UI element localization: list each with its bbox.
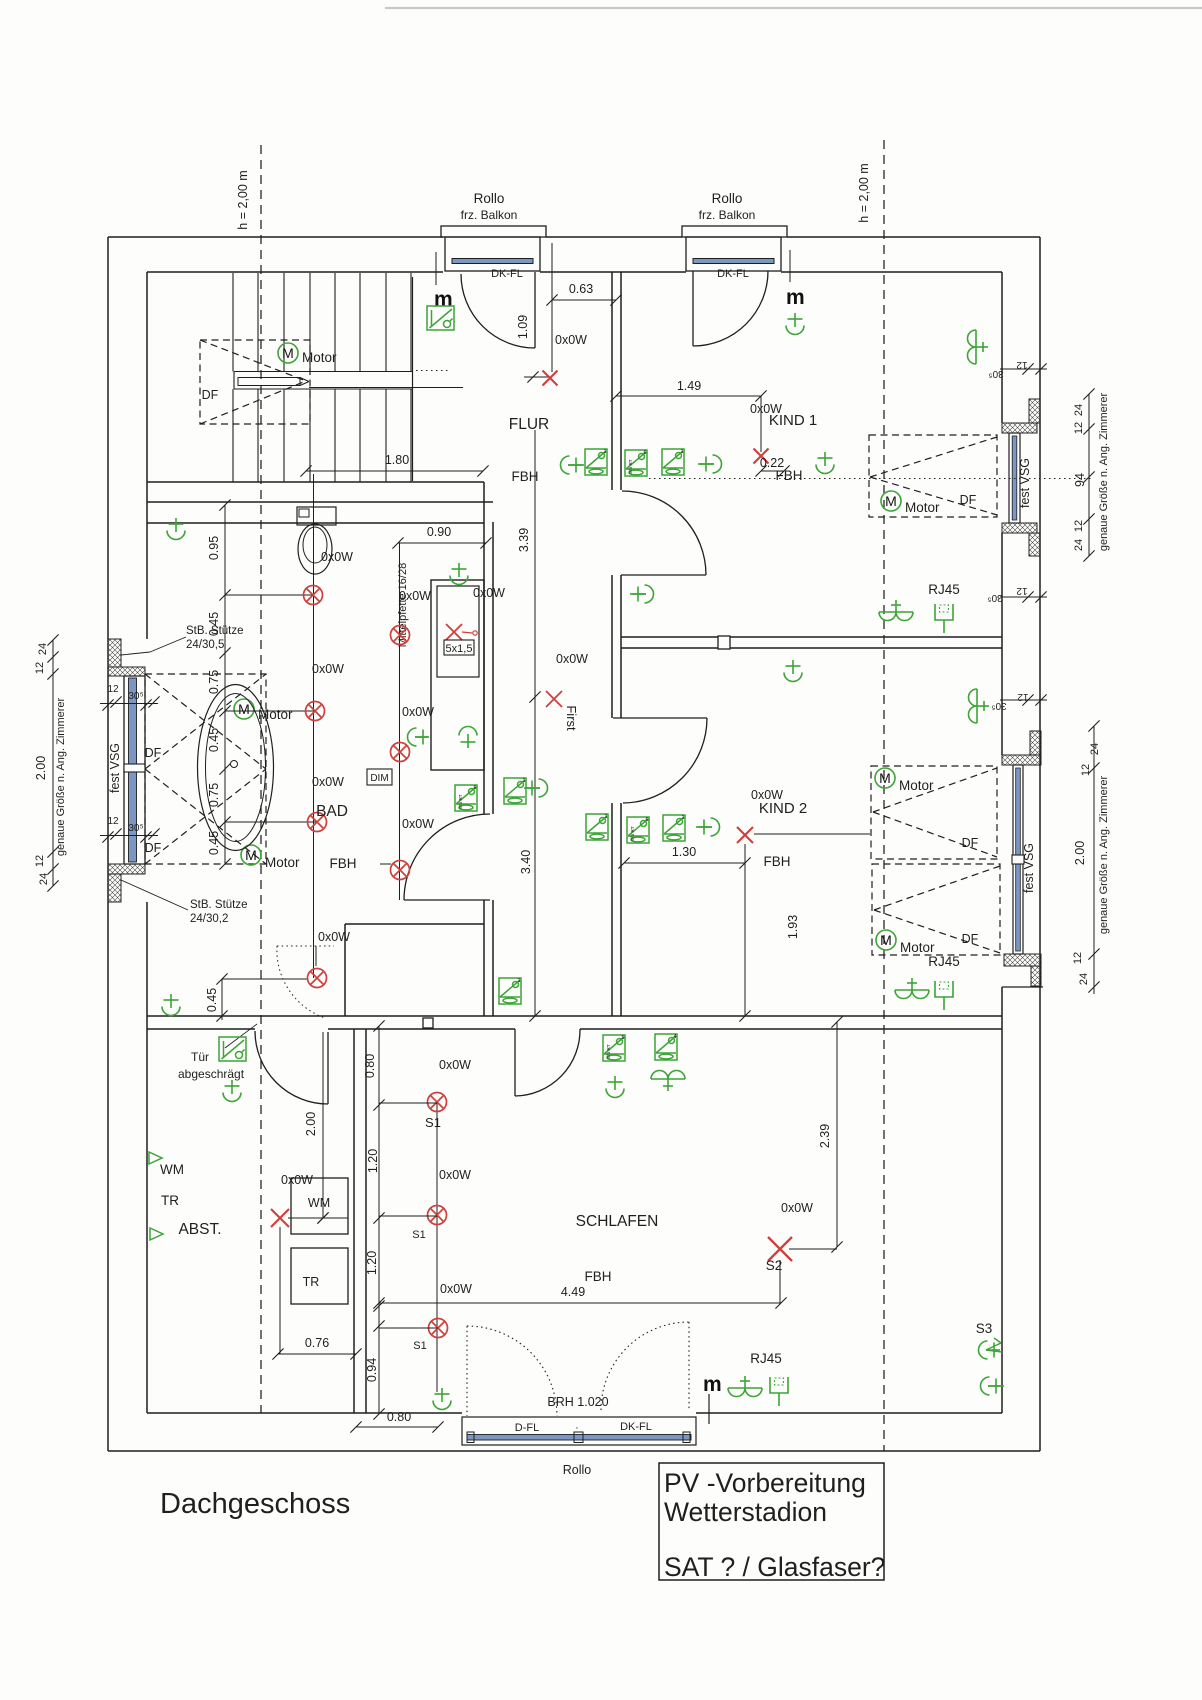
window right lower (2.00) frame — [1012, 765, 1014, 954]
control box SCHLAFEN 2 — [655, 1034, 677, 1060]
control box FLUR row 1 — [585, 449, 607, 475]
ceiling lamp lobby upper — [162, 994, 180, 1016]
svg-text:1.49: 1.49 — [677, 379, 701, 393]
ceiling lamp BAD 3 — [308, 813, 327, 832]
WC cistern — [297, 507, 336, 525]
svg-text:FBH: FBH — [512, 469, 539, 484]
extension line window2 right — [789, 250, 791, 282]
svg-text:0x0W: 0x0W — [402, 705, 434, 719]
svg-text:DF: DF — [962, 932, 979, 946]
window left mid divider — [124, 764, 145, 772]
svg-text:Info RT: Info RT — [458, 794, 463, 809]
room thermostat box BAD — [455, 785, 477, 811]
svg-text:12: 12 — [1016, 359, 1028, 370]
svg-text:1: 1 — [681, 815, 684, 821]
dashed line h=2.00m right — [883, 140, 885, 1451]
svg-text:DF: DF — [962, 836, 979, 850]
left window corner dim ticks upper — [100, 703, 158, 705]
ceiling lamp BAD WC — [167, 518, 185, 540]
svg-text:Dachgeschoss: Dachgeschoss — [160, 1488, 350, 1520]
wall south main lower line — [147, 1028, 255, 1030]
svg-text:2.00: 2.00 — [34, 756, 48, 780]
left window corner dim ticks lower — [100, 835, 158, 837]
svg-text:RJ45: RJ45 — [750, 1351, 782, 1366]
svg-text:24: 24 — [1078, 973, 1090, 985]
svg-text:ABST.: ABST. — [178, 1221, 221, 1238]
shower lamp bottom — [459, 727, 477, 749]
svg-text:m: m — [786, 286, 805, 309]
motor M KIND2 lower — [876, 930, 896, 950]
svg-text:frz. Balkon: frz. Balkon — [461, 208, 518, 222]
stair handrail outer — [234, 371, 412, 373]
svg-text:StB. Stütze: StB. Stütze — [190, 899, 248, 911]
svg-text:frz. Balkon: frz. Balkon — [699, 208, 756, 222]
dim 0.22 — [761, 470, 784, 472]
svg-text:First: First — [564, 705, 579, 731]
door KIND1 corridor — [621, 574, 706, 576]
svg-text:12: 12 — [1016, 585, 1028, 596]
svg-text:DIM: DIM — [370, 773, 388, 784]
svg-text:30⁵: 30⁵ — [991, 700, 1006, 711]
washing machine WM box — [291, 1178, 348, 1234]
svg-text:M: M — [282, 345, 294, 361]
ceiling lamp SCHLAFEN top — [606, 1076, 624, 1098]
svg-text:12: 12 — [1080, 764, 1092, 776]
svg-text:0x0W: 0x0W — [402, 817, 434, 831]
svg-text:DF: DF — [960, 493, 977, 507]
svg-text:0x0W: 0x0W — [312, 775, 344, 789]
svg-text:M: M — [885, 493, 897, 509]
shower tray inner — [437, 586, 479, 677]
dim 0.63 — [552, 299, 616, 301]
DF box KIND1 right — [869, 435, 997, 517]
svg-text:genaue Größe n. Ang. Zimmerer: genaue Größe n. Ang. Zimmerer — [1098, 392, 1110, 551]
svg-text:0x0W: 0x0W — [321, 550, 353, 564]
svg-text:1.30: 1.30 — [672, 845, 696, 859]
motor M BAD upper — [234, 699, 254, 719]
svg-text:Rollo: Rollo — [563, 1463, 592, 1477]
door ABST — [327, 1032, 329, 1104]
wall KIND1-KIND2 — [621, 636, 1002, 638]
motor M stairwell — [278, 343, 298, 363]
dim chain left outer — [52, 640, 54, 886]
svg-text:Motor: Motor — [905, 500, 940, 515]
window right lower mid divider — [1012, 855, 1024, 864]
data socket RJ45 SCHLAFEN — [770, 1377, 788, 1406]
svg-text:0.80: 0.80 — [363, 1054, 377, 1078]
label DIM box — [367, 769, 392, 785]
light point SCHLAFEN S2 red X — [768, 1237, 792, 1261]
post on KIND1-KIND2 wall — [718, 636, 730, 649]
control box KIND2 row 2 info — [627, 817, 649, 843]
svg-text:24: 24 — [1089, 743, 1101, 755]
svg-text:24: 24 — [37, 643, 49, 655]
window left fest VSG frame — [123, 676, 125, 864]
socket corridor — [526, 779, 548, 797]
door FLUR balcony — [534, 272, 536, 348]
svg-text:3.39: 3.39 — [517, 528, 531, 552]
dim chain BAD vertical — [224, 505, 226, 864]
ceiling lamp S1-3 — [429, 1319, 448, 1338]
svg-text:h = 2,00 m: h = 2,00 m — [857, 163, 871, 222]
svg-text:WM: WM — [160, 1162, 184, 1177]
svg-text:DK-FL: DK-FL — [491, 268, 523, 280]
cable point 5x1.5 red — [446, 624, 462, 640]
svg-text:24: 24 — [1073, 404, 1085, 416]
shower lamp top — [450, 563, 468, 585]
svg-text:FBH: FBH — [776, 468, 803, 483]
light point KIND1 red X — [754, 449, 769, 464]
svg-text:6: 6 — [473, 785, 476, 791]
ceiling lamp KIND2 near post — [784, 660, 802, 682]
rafter dim right wall lower — [1000, 699, 1047, 701]
ceiling lamp SCHLAFEN bottom — [433, 1388, 451, 1410]
svg-text:M: M — [238, 701, 250, 717]
svg-text:DF: DF — [202, 388, 219, 402]
dim 0.45 lobby — [221, 979, 223, 1020]
svg-text:1.20: 1.20 — [366, 1149, 380, 1173]
supply triangle ABST — [150, 1228, 163, 1240]
svg-text:1.09: 1.09 — [516, 315, 530, 339]
wall double socket KIND2 right — [969, 689, 990, 723]
svg-text:1: 1 — [517, 978, 520, 984]
double socket SCHLAFEN top — [651, 1071, 685, 1092]
svg-text:0x0W: 0x0W — [439, 1058, 471, 1072]
svg-text:1.80: 1.80 — [385, 453, 409, 467]
svg-text:0x0W: 0x0W — [439, 1168, 471, 1182]
dashed line h=2.00m left — [260, 145, 262, 1413]
svg-text:12: 12 — [1072, 952, 1084, 964]
door SCHLAFEN — [514, 1029, 516, 1096]
svg-text:1.20: 1.20 — [365, 1251, 379, 1275]
double socket KIND1 right — [879, 600, 913, 621]
svg-text:Tür: Tür — [191, 1050, 209, 1064]
svg-text:RJ45: RJ45 — [928, 954, 960, 969]
svg-text:0.63: 0.63 — [569, 282, 593, 296]
svg-text:12: 12 — [34, 662, 46, 674]
svg-text:0x0W: 0x0W — [312, 662, 344, 676]
ceiling lamp KIND1 mid — [816, 452, 834, 474]
ceiling lamp ABST door — [223, 1080, 241, 1102]
socket KIND1 door — [632, 585, 654, 603]
purlin line Mittelpfette — [399, 543, 401, 900]
switch S3 lower — [981, 1377, 1003, 1395]
svg-text:h = 2,00 m: h = 2,00 m — [236, 170, 250, 229]
double socket SCHLAFEN bottom — [728, 1376, 762, 1397]
ceiling lamp S1-2 — [428, 1206, 447, 1225]
window right lower hatch blocks — [1030, 731, 1041, 755]
svg-text:0x0W: 0x0W — [281, 1173, 313, 1187]
svg-text:30⁵: 30⁵ — [988, 368, 1003, 379]
svg-text:SCHLAFEN: SCHLAFEN — [576, 1213, 659, 1230]
svg-text:StB. Stütze: StB. Stütze — [186, 625, 244, 637]
dotted ridge line First — [649, 478, 1092, 480]
svg-text:5x1,5: 5x1,5 — [446, 643, 473, 655]
ceiling lamp BAD 1 — [304, 586, 323, 605]
dim 0.76 — [278, 1353, 356, 1355]
svg-text:FBH: FBH — [585, 1269, 612, 1284]
control box FLUR row 2 info — [625, 450, 647, 476]
svg-text:1: 1 — [603, 449, 606, 455]
svg-text:12: 12 — [107, 816, 119, 827]
window right lower glazing — [1016, 768, 1021, 951]
DF box KIND2 upper — [871, 766, 997, 859]
svg-text:30⁵: 30⁵ — [128, 691, 143, 702]
svg-text:0x0W: 0x0W — [440, 1282, 472, 1296]
dim 2.39 — [836, 1022, 838, 1247]
WC bowl — [298, 524, 332, 574]
svg-text:S1: S1 — [412, 1229, 425, 1241]
bathtub oval — [198, 685, 274, 851]
wall outer right — [1039, 237, 1041, 1451]
door BAD — [404, 899, 490, 901]
stair handrail dotted continuation — [416, 370, 448, 372]
svg-text:12: 12 — [107, 684, 119, 695]
svg-text:TR: TR — [161, 1193, 179, 1208]
svg-text:12: 12 — [1017, 691, 1029, 702]
control box KIND2 row 3 — [663, 815, 685, 841]
stair handrail inner rail — [238, 378, 300, 386]
svg-text:TR: TR — [303, 1275, 320, 1289]
svg-text:Motor: Motor — [302, 350, 337, 365]
light point ABST red X — [271, 1209, 289, 1227]
svg-text:M: M — [880, 932, 892, 948]
ceiling lamp S1-1 — [428, 1093, 447, 1112]
dim 0.80 bottom — [356, 1426, 438, 1428]
ceiling lamp BAD purlin 2 — [391, 743, 410, 762]
svg-text:2.39: 2.39 — [818, 1124, 832, 1148]
dim 3.39 3.40 corridor — [534, 430, 536, 1016]
wire BAD lights column — [313, 474, 315, 978]
svg-text:24: 24 — [1073, 539, 1085, 551]
svg-text:94: 94 — [1073, 473, 1087, 487]
svg-text:0.94: 0.94 — [365, 1358, 379, 1382]
svg-text:Motor: Motor — [265, 855, 300, 870]
svg-text:0x0W: 0x0W — [781, 1201, 813, 1215]
door KIND1 balcony — [692, 271, 694, 346]
motor M BAD lower — [241, 845, 261, 865]
svg-text:Info RT: Info RT — [630, 826, 635, 841]
svg-text:WM: WM — [308, 1196, 330, 1210]
control box corridor — [504, 778, 526, 804]
svg-text:genaue Größe n. Ang. Zimmerer: genaue Größe n. Ang. Zimmerer — [1098, 775, 1110, 934]
extension line window1 right — [435, 252, 437, 285]
ceiling lamp BAD purlin 1 — [391, 626, 410, 645]
wall stair-bottom band — [147, 481, 484, 483]
svg-text:24/30,5: 24/30,5 — [186, 639, 224, 651]
dim 1.49 — [616, 395, 761, 397]
control box SCHLAFEN 1 info — [603, 1035, 625, 1061]
svg-text:D-FL: D-FL — [515, 1422, 539, 1434]
svg-text:2.00: 2.00 — [304, 1112, 318, 1136]
wall ABST-SCHLAFEN — [353, 1029, 355, 1413]
svg-text:12: 12 — [1073, 422, 1085, 434]
ceiling lamp BAD purlin 3 — [391, 861, 410, 880]
wall inner left — [146, 272, 148, 639]
wall outer left — [107, 237, 109, 1451]
svg-text:FLUR: FLUR — [509, 416, 549, 433]
data socket RJ45 KIND1 — [935, 604, 953, 633]
control box FLUR — [427, 306, 454, 330]
svg-text:24/30,2: 24/30,2 — [190, 913, 228, 925]
window DK-FL top-left frame — [445, 237, 540, 271]
wall double socket KIND1 right — [968, 330, 989, 364]
wall corridor left — [483, 482, 485, 814]
svg-text:Info RT: Info RT — [628, 459, 633, 474]
svg-text:0x0W: 0x0W — [556, 652, 588, 666]
ceiling lamp KIND1 top — [786, 313, 804, 335]
window DK-FL top-right glazing — [693, 259, 774, 264]
svg-text:1.93: 1.93 — [786, 915, 800, 939]
svg-text:m: m — [703, 1373, 722, 1396]
dim 1.30 — [624, 862, 745, 864]
stairwell right edge — [412, 277, 414, 481]
svg-text:0.95: 0.95 — [207, 536, 221, 560]
svg-text:BAD: BAD — [316, 803, 348, 820]
window left glazing — [129, 678, 137, 862]
svg-text:5: 5 — [621, 1035, 624, 1041]
stair direction arrow — [300, 378, 309, 382]
svg-text:12: 12 — [34, 855, 46, 867]
dim 1.93 — [744, 863, 746, 1016]
svg-text:M: M — [879, 770, 891, 786]
svg-text:KIND 2: KIND 2 — [759, 800, 807, 817]
light point FLUR red X — [524, 376, 552, 378]
window right upper glazing — [1012, 436, 1017, 520]
wall outer top — [108, 236, 443, 238]
svg-text:S3: S3 — [976, 1321, 993, 1336]
svg-text:genaue Größe n. Ang. Zimmerer: genaue Größe n. Ang. Zimmerer — [55, 697, 67, 856]
wall corridor right — [611, 272, 613, 490]
svg-text:PV -Vorbereitung: PV -Vorbereitung — [664, 1468, 866, 1498]
svg-text:DF: DF — [145, 841, 162, 855]
wall south main upper line — [147, 1015, 1002, 1017]
DF box BAD left — [145, 674, 266, 864]
stair treads lower flight — [232, 389, 234, 482]
supply triangle WM — [149, 1152, 162, 1164]
dotted wire lobby — [277, 945, 334, 947]
window DK-FL top-right roller box — [682, 226, 787, 237]
svg-text:0.45: 0.45 — [205, 988, 219, 1012]
wall outer bottom — [108, 1450, 1040, 1452]
svg-text:0.75: 0.75 — [207, 670, 221, 694]
door KIND2 corridor — [613, 717, 707, 719]
wire purlin lamp3 left — [380, 863, 391, 865]
dim 1.09 — [551, 300, 553, 372]
shower enclosure outer — [431, 580, 484, 770]
svg-text:m: m — [434, 288, 453, 311]
window bottom end caps and divider — [467, 1432, 474, 1443]
window right upper hatch blocks — [1029, 399, 1040, 423]
svg-text:FBH: FBH — [764, 854, 791, 869]
svg-text:3.40: 3.40 — [519, 850, 533, 874]
svg-text:30⁵: 30⁵ — [987, 592, 1002, 603]
window right upper (94) frame — [1008, 433, 1010, 523]
svg-text:RJ45: RJ45 — [928, 582, 960, 597]
dim chain SCHLAFEN left — [378, 1026, 380, 1414]
wire to BAD lights — [225, 594, 313, 596]
ridge mark First red X — [546, 691, 562, 707]
rafter dim right wall top — [1000, 368, 1047, 370]
double socket KIND2 bottom — [895, 978, 929, 999]
svg-text:fest VSG: fest VSG — [108, 743, 122, 793]
socket BAD left of shower — [408, 728, 430, 746]
svg-text:0x0W: 0x0W — [473, 586, 505, 600]
svg-text:1: 1 — [604, 814, 607, 820]
svg-text:Rollo: Rollo — [474, 191, 505, 206]
wire S1 column — [436, 1102, 438, 1392]
scan artifact gray line top — [385, 7, 1202, 9]
wall inner right — [1001, 272, 1003, 423]
window bottom glazing — [467, 1435, 691, 1441]
svg-text:fest VSG: fest VSG — [1018, 458, 1032, 508]
DF box stairwell — [200, 340, 310, 424]
svg-text:24: 24 — [38, 873, 50, 885]
control box KIND2 row 1 — [586, 814, 608, 840]
svg-text:4.49: 4.49 — [561, 1285, 585, 1299]
stair treads upper flight — [232, 273, 234, 372]
svg-text:DF: DF — [145, 746, 162, 760]
svg-text:4: 4 — [673, 1034, 676, 1040]
svg-text:6: 6 — [645, 817, 648, 823]
window bottom D-FL DK-FL frame — [462, 1417, 696, 1445]
window left hatch blocks — [108, 639, 121, 667]
svg-text:0x0W: 0x0W — [555, 333, 587, 347]
svg-text:30⁵: 30⁵ — [128, 823, 143, 834]
svg-text:0.90: 0.90 — [427, 525, 451, 539]
svg-text:1: 1 — [680, 449, 683, 455]
svg-text:2.00: 2.00 — [1073, 841, 1087, 865]
control box FLUR row 3 — [662, 449, 684, 475]
annotation box PV — [659, 1463, 884, 1580]
svg-text:fest VSG: fest VSG — [1022, 843, 1036, 893]
DF box KIND2 lower — [872, 864, 1000, 955]
door drive box ABST — [219, 1037, 246, 1061]
data socket RJ45 KIND2 — [935, 981, 953, 1010]
svg-text:12: 12 — [1073, 520, 1085, 532]
window DK-FL top-left glazing — [452, 259, 533, 264]
svg-text:0.80: 0.80 — [387, 1410, 411, 1424]
svg-text:DK-FL: DK-FL — [620, 1421, 652, 1433]
svg-text:FBH: FBH — [330, 856, 357, 871]
svg-text:S1: S1 — [413, 1340, 426, 1352]
svg-text:abgeschrägt: abgeschrägt — [178, 1067, 245, 1081]
svg-text:Motor: Motor — [258, 707, 293, 722]
switch S3 upper — [979, 1341, 1001, 1359]
svg-text:Wetterstadion: Wetterstadion — [664, 1497, 827, 1527]
svg-text:M: M — [245, 847, 257, 863]
dryer TR box — [291, 1248, 348, 1304]
svg-text:Motor: Motor — [899, 778, 934, 793]
wall inner bottom — [147, 1412, 462, 1414]
dim 2.00 ABST — [322, 1032, 324, 1218]
svg-text:1: 1 — [522, 778, 525, 784]
svg-text:KIND 1: KIND 1 — [769, 412, 817, 429]
cable label 5x1,5 box — [444, 640, 474, 655]
svg-text:0x0W: 0x0W — [399, 589, 431, 603]
window DK-FL top-left roller box — [441, 226, 546, 237]
window DK-FL top-right frame — [686, 237, 781, 271]
wall inner top — [147, 271, 443, 273]
dim 0.90 BAD — [398, 542, 486, 544]
svg-text:S1: S1 — [425, 1115, 441, 1130]
svg-text:Info RT: Info RT — [606, 1044, 611, 1059]
svg-text:0.76: 0.76 — [305, 1336, 329, 1350]
light point KIND2 red X — [737, 827, 753, 843]
socket FLUR row left — [561, 456, 583, 474]
motor M KIND1 — [881, 491, 901, 511]
post on south wall — [423, 1018, 433, 1028]
